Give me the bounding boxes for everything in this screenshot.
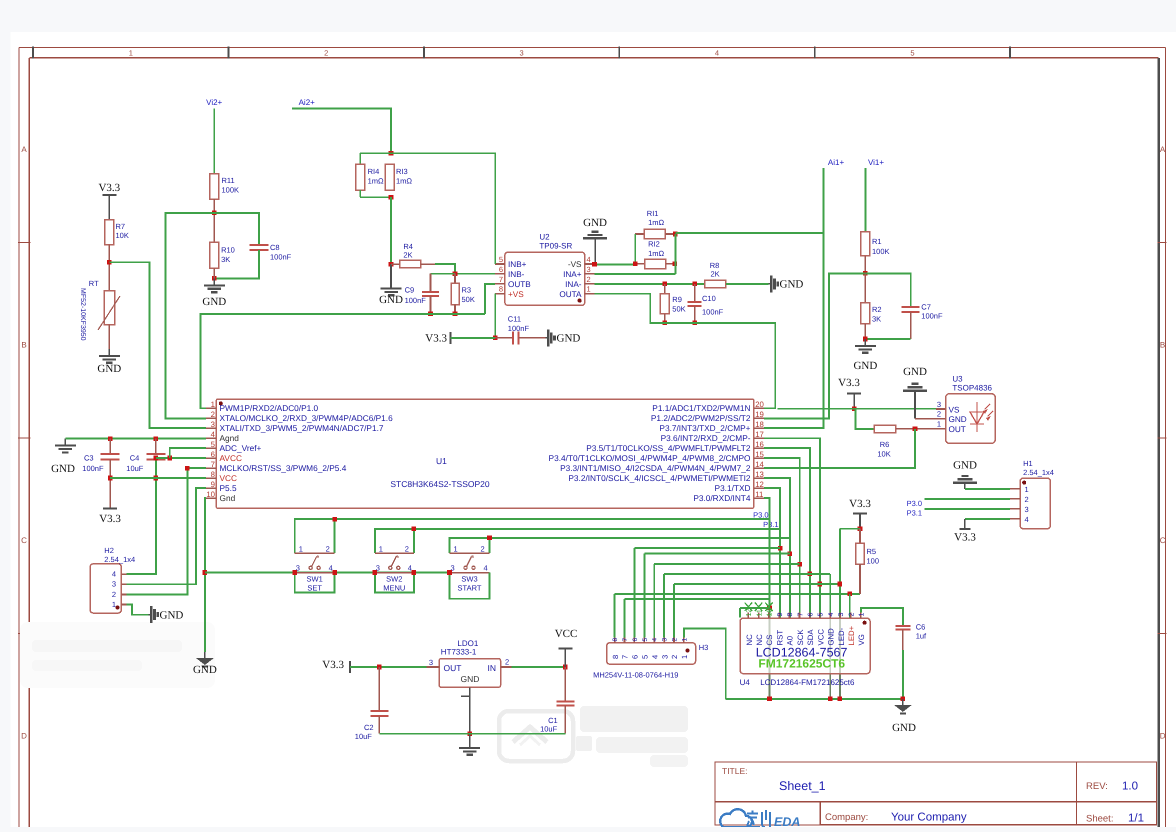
svg-text:R7: R7 (116, 222, 126, 231)
svg-text:5: 5 (499, 255, 503, 264)
power flag V3.3 (R5) (849, 498, 871, 529)
capacitor C2 (355, 667, 389, 741)
svg-text:GND: GND (202, 296, 226, 308)
svg-text:A: A (21, 145, 27, 154)
svg-text:3: 3 (937, 400, 941, 409)
wire branch row VCC-H3p2 (674, 583, 840, 585)
svg-text:C4: C4 (130, 454, 140, 463)
svg-text:U1: U1 (436, 456, 447, 466)
svg-text:1uf: 1uf (916, 632, 927, 641)
node R9 top junction (662, 282, 667, 287)
svg-text:100nF: 100nF (82, 464, 104, 473)
svg-text:19: 19 (755, 410, 764, 419)
node LED+ junction (847, 592, 852, 597)
power flag V3.3 (R7) (98, 182, 120, 220)
svg-text:5: 5 (818, 613, 825, 617)
wire branch row RST-H3p6 (634, 547, 780, 549)
resistor RI2 (635, 240, 675, 269)
svg-text:14: 14 (755, 460, 764, 469)
svg-text:MH254V-11-08-0764-H19: MH254V-11-08-0764-H19 (593, 671, 678, 680)
ground LCD rail (892, 699, 916, 734)
svg-text:V3.3: V3.3 (99, 513, 121, 525)
connector H3 (593, 637, 708, 679)
node R1/R2 junction (863, 271, 868, 276)
svg-text:P1.2/ADC2/PWM2P/SS/T2: P1.2/ADC2/PWM2P/SS/T2 (651, 413, 751, 423)
node +VS junction (493, 336, 498, 341)
svg-text:17: 17 (755, 430, 764, 439)
svg-text:VCC: VCC (816, 629, 825, 646)
node C3 top junction (108, 436, 113, 441)
wire R7-RT (108, 245, 110, 291)
svg-text:2K: 2K (403, 251, 412, 260)
svg-text:B: B (1160, 341, 1165, 350)
node R5 top junction (858, 526, 863, 531)
svg-text:PWM1P/RXD2/ADC0/P1.0: PWM1P/RXD2/ADC0/P1.0 (220, 403, 319, 413)
svg-text:2: 2 (937, 410, 941, 419)
svg-text:2.54_1x4: 2.54_1x4 (1023, 468, 1054, 477)
wire H3 pin3 riser (663, 574, 665, 637)
svg-text:2: 2 (587, 275, 591, 284)
wire INB+ riser (391, 153, 495, 264)
title block (715, 762, 1157, 825)
svg-text:Company:: Company: (825, 812, 868, 823)
svg-text:8: 8 (612, 638, 619, 642)
svg-text:V3.3: V3.3 (425, 333, 447, 345)
svg-text:Gnd: Gnd (220, 493, 236, 503)
wire RI top bar (360, 153, 391, 164)
node AVCC/C4 junction (154, 456, 159, 461)
node LDO GND junction (467, 731, 472, 736)
svg-text:4: 4 (484, 564, 488, 573)
svg-text:XTALI/TXD_3/PWM5_2/PWM4N/ADC7/: XTALI/TXD_3/PWM5_2/PWM4N/ADC7/P1.7 (220, 423, 384, 433)
node branch RST (778, 546, 783, 551)
svg-text:100nF: 100nF (270, 253, 292, 262)
node SW3 rail junction (487, 536, 492, 541)
wire H3 pin5 riser (643, 554, 645, 638)
svg-text:Agnd: Agnd (220, 433, 240, 443)
capacitor C7 (902, 303, 943, 340)
wire divider to C7 (865, 273, 910, 307)
resistor RI3 (385, 164, 412, 190)
svg-text:100K: 100K (222, 186, 240, 195)
wire branch row SDA-H3p3 (664, 573, 830, 575)
svg-text:FM1721625CT6: FM1721625CT6 (758, 656, 845, 670)
svg-text:RI1: RI1 (647, 209, 659, 218)
resistor R10 (210, 242, 235, 268)
svg-text:3: 3 (520, 48, 524, 57)
node RI1 right junction (673, 232, 678, 237)
svg-text:U2: U2 (539, 233, 550, 242)
wire -VS to RI2 (595, 263, 636, 265)
node C10 top junction (692, 282, 697, 287)
op-amp U2 (495, 233, 594, 306)
svg-text:20: 20 (755, 400, 764, 409)
wire pin12 column (764, 488, 780, 618)
power flag V3.3 (U3) (838, 377, 861, 409)
svg-text:3K: 3K (221, 255, 230, 264)
svg-text:4: 4 (828, 613, 835, 617)
node R7/RT junction (107, 260, 112, 265)
wire V3.3/LED- column (839, 529, 841, 699)
node branch A0 (788, 551, 793, 556)
svg-text:2: 2 (481, 545, 485, 554)
svg-text:P3.0: P3.0 (907, 499, 922, 508)
svg-text:5: 5 (211, 440, 216, 449)
svg-text:STC8H3K64S2-TSSOP20: STC8H3K64S2-TSSOP20 (390, 479, 489, 489)
svg-text:P3.3/INT1/MISO_4/I2CSDA_4/PWM4: P3.3/INT1/MISO_4/I2CSDA_4/PWM4N_4/PWM7_2 (560, 463, 751, 473)
svg-text:INB+: INB+ (508, 260, 527, 269)
svg-text:1: 1 (454, 545, 458, 554)
svg-text:1.0: 1.0 (1122, 781, 1138, 793)
switch SW3 (450, 538, 790, 599)
ground R10 (202, 278, 226, 308)
svg-text:6: 6 (632, 638, 639, 642)
wire H1 pin2 (924, 498, 1009, 500)
svg-text:3: 3 (112, 580, 116, 589)
ground below R4 junction (379, 264, 403, 306)
wire C4 bottom to H2 pin4 (126, 459, 156, 574)
ground H1 (953, 460, 977, 489)
svg-text:OUT: OUT (949, 425, 966, 434)
frame column ticks and numbers (33, 47, 1010, 59)
svg-text:P3.2/INT0/SCLK_4/ICSCL_4/PWMET: P3.2/INT0/SCLK_4/ICSCL_4/PWMETI/PWMETI2 (568, 473, 751, 483)
svg-text:VS: VS (949, 406, 960, 415)
svg-text:6: 6 (631, 655, 640, 659)
resistor RI1 (635, 209, 675, 239)
capacitor C1 (540, 667, 574, 734)
svg-text:3: 3 (838, 613, 845, 617)
svg-text:GND: GND (583, 217, 607, 229)
svg-text:P3.0: P3.0 (753, 511, 768, 520)
svg-text:R11: R11 (222, 176, 235, 185)
capacitor C11 (495, 315, 545, 345)
wire RI to R4 (390, 197, 392, 264)
svg-text:IN: IN (488, 663, 497, 673)
svg-text:16: 16 (755, 440, 764, 449)
svg-text:3: 3 (660, 655, 669, 659)
node R4/R3 junction (453, 271, 458, 276)
svg-text:REV:: REV: (1086, 781, 1108, 792)
svg-text:VG: VG (857, 634, 866, 645)
node rail CS (767, 697, 772, 702)
svg-text:3: 3 (429, 658, 433, 667)
svg-text:1: 1 (299, 545, 303, 554)
svg-text:5: 5 (642, 638, 649, 642)
wire LED+ drop (849, 594, 851, 618)
svg-text:A: A (1160, 145, 1166, 154)
node R11/R10 junction (212, 211, 217, 216)
svg-text:MCLKO/RST/SS_3/PWM6_2/P5.4: MCLKO/RST/SS_3/PWM6_2/P5.4 (220, 463, 347, 473)
wire pin9 to H2 pin3 (126, 488, 206, 584)
svg-text:R10: R10 (221, 246, 235, 255)
node Gnd/switch-rail junction (203, 570, 208, 575)
resistor R2 (861, 273, 882, 324)
resistor R1 (861, 232, 890, 274)
svg-text:1: 1 (112, 600, 116, 609)
wire H3 pin8 riser (614, 594, 616, 638)
svg-text:GND: GND (51, 463, 75, 475)
svg-text:SDA: SDA (806, 629, 815, 646)
svg-text:CS: CS (765, 635, 774, 646)
svg-text:2K: 2K (711, 270, 720, 279)
wire Ai1+ rail (675, 232, 823, 234)
node branch VCC-LCD (818, 582, 823, 587)
svg-text:4: 4 (587, 255, 591, 264)
svg-text:R3: R3 (462, 286, 472, 295)
wire RI bottom bar (360, 190, 391, 197)
capacitor C8 (250, 243, 292, 262)
node C2 junction (377, 665, 382, 670)
svg-text:2: 2 (405, 545, 409, 554)
svg-text:Ai2+: Ai2+ (299, 98, 316, 107)
svg-text:P3.1: P3.1 (763, 520, 778, 529)
wire R2 bottom (865, 324, 910, 339)
wire V3.3 rail to U3 (778, 408, 945, 410)
svg-text:P3.6/INT2/RXD_2/CMP-: P3.6/INT2/RXD_2/CMP- (661, 433, 751, 443)
svg-text:11: 11 (755, 490, 763, 499)
net label P3.0 (H1) (907, 499, 922, 508)
node R4 left junction (389, 262, 394, 267)
wire C8 bottom (214, 250, 259, 278)
wire +VS riser (494, 294, 496, 338)
wire pin7 to H2 pin2 (126, 468, 206, 594)
svg-text:TSOP4836: TSOP4836 (952, 384, 992, 393)
svg-text:100nF: 100nF (921, 312, 943, 321)
svg-text:8: 8 (787, 613, 794, 617)
wire V3.3 to LDO OUT (350, 666, 426, 668)
thermistor RT (79, 279, 120, 341)
resistor R7 (105, 220, 129, 245)
svg-text:50K: 50K (672, 305, 685, 314)
net label P3.1 (H1) (907, 509, 922, 518)
svg-text:10K: 10K (877, 450, 890, 459)
connector H1 (1010, 459, 1054, 529)
node rail GND (828, 697, 833, 702)
wire OUT to pin14 (764, 429, 915, 468)
svg-text:R9: R9 (672, 295, 682, 304)
svg-text:C3: C3 (84, 454, 94, 463)
svg-text:SET: SET (307, 583, 322, 592)
wire Agnd rail (65, 438, 205, 440)
node branch SCK (797, 562, 802, 567)
svg-text:-VS: -VS (568, 260, 582, 269)
ground U3 top (903, 366, 927, 419)
svg-text:V3.3: V3.3 (838, 377, 860, 389)
capacitor C6 (895, 623, 927, 699)
ground H2 pin1 (148, 606, 183, 623)
svg-text:4: 4 (652, 638, 659, 642)
node RI2 right junction (673, 262, 678, 267)
resistor R8 (705, 261, 769, 288)
svg-text:100nF: 100nF (405, 296, 427, 305)
svg-text:1: 1 (587, 285, 591, 294)
net label P3.0 (U1) (753, 511, 768, 520)
wire pin17 column (764, 438, 820, 617)
svg-text:SW1: SW1 (307, 575, 323, 584)
svg-text:18: 18 (755, 420, 764, 429)
wire Vi1+ to R1 (864, 168, 866, 232)
svg-text:INB-: INB- (508, 270, 525, 279)
wire H2 pin1 to GND (126, 605, 148, 615)
wire OUTB riser (485, 284, 495, 314)
node -VS junction (592, 262, 597, 267)
svg-text:2.54_1x4: 2.54_1x4 (104, 555, 135, 564)
wire H3 pin7 riser (624, 599, 626, 638)
svg-text:6: 6 (499, 265, 503, 274)
ground RT (97, 349, 121, 375)
svg-text:C9: C9 (405, 286, 415, 295)
svg-text:5: 5 (910, 48, 914, 57)
svg-text:GND: GND (827, 628, 836, 646)
svg-text:1: 1 (1025, 485, 1029, 494)
wire H3 pin2 riser (673, 584, 675, 637)
node SW2 rail junction (412, 527, 417, 532)
node RI top junction (389, 151, 394, 156)
svg-text:13: 13 (755, 470, 764, 479)
svg-text:50K: 50K (462, 295, 475, 304)
node SW3 pin3 junction (447, 570, 452, 575)
wire pin10 Gnd down (204, 498, 207, 652)
svg-text:GND: GND (97, 363, 121, 375)
svg-text:2: 2 (211, 410, 215, 419)
node U3 OUT junction (913, 427, 918, 432)
net label Ai2+ (299, 98, 316, 107)
connector H2 (90, 546, 135, 613)
svg-text:10K: 10K (116, 231, 129, 240)
svg-text:LED+: LED+ (847, 625, 856, 645)
resistor R5 (856, 529, 879, 594)
svg-text:GND: GND (853, 360, 877, 372)
svg-text:8: 8 (499, 285, 503, 294)
node RI bottom junction (389, 195, 394, 200)
svg-text:START: START (458, 583, 482, 592)
wire V3.3 to column (840, 528, 860, 530)
wire RI1/RI2 left vertical (634, 234, 636, 264)
svg-text:P3.4/T0/T1CLKO/MOSI_4/PWM4P_4/: P3.4/T0/T1CLKO/MOSI_4/PWM4P_4/PWM8_2/CMP… (549, 453, 751, 463)
svg-text:RI3: RI3 (396, 167, 408, 176)
wire AVCC rail (156, 457, 206, 459)
svg-text:GND: GND (379, 294, 403, 306)
svg-text:C7: C7 (921, 303, 931, 312)
svg-text:Ai1+: Ai1+ (828, 158, 845, 167)
svg-text:OUT: OUT (444, 663, 462, 673)
svg-text:9: 9 (777, 613, 784, 617)
svg-text:1: 1 (211, 400, 215, 409)
wire C9 branch (431, 273, 456, 275)
wire Ai2+ to RI pair (292, 109, 391, 154)
svg-text:2: 2 (672, 638, 679, 642)
svg-text:VCC: VCC (555, 628, 578, 640)
svg-text:OUTA: OUTA (559, 290, 582, 299)
svg-text:1mΩ: 1mΩ (648, 249, 664, 258)
svg-text:15: 15 (755, 450, 764, 459)
svg-text:MF52-10KF3950: MF52-10KF3950 (79, 288, 86, 341)
wire R4 to INB- (435, 264, 495, 274)
node U3 VS junction (852, 406, 857, 411)
node R10 bottom junction (212, 268, 217, 280)
svg-text:P3.5/T1/T0CLKO/SS_4/PWMFLT/PWM: P3.5/T1/T0CLKO/SS_4/PWMFLT/PWMFLT2 (586, 443, 751, 453)
svg-text:7: 7 (211, 460, 215, 469)
wire LCD GND column (829, 574, 831, 699)
wire branch row CS (740, 608, 770, 618)
svg-text:10uF: 10uF (355, 732, 373, 741)
switch SW1 (295, 519, 770, 593)
svg-text:P1.1/ADC1/TXD2/PWM1N: P1.1/ADC1/TXD2/PWM1N (652, 403, 750, 413)
resistor R9 (660, 284, 686, 323)
node C4/VCC junction (154, 476, 159, 481)
svg-text:1: 1 (937, 419, 941, 428)
svg-text:GND: GND (780, 279, 804, 291)
svg-text:GND: GND (557, 333, 581, 345)
svg-text:9: 9 (211, 480, 215, 489)
frame row ticks and letters (18, 145, 1167, 741)
svg-text:GND: GND (193, 664, 217, 676)
svg-text:8: 8 (211, 470, 215, 479)
svg-text:4: 4 (715, 48, 719, 57)
svg-text:4: 4 (1025, 515, 1029, 524)
wire pin15 column (764, 458, 800, 618)
ground pin10 (193, 652, 217, 676)
svg-text:GND: GND (903, 366, 927, 378)
wire H1 pin3 (924, 508, 1009, 510)
svg-text:3K: 3K (872, 315, 881, 324)
node V3.3 column joint (838, 582, 843, 587)
svg-text:3: 3 (211, 420, 215, 429)
svg-text:LED-: LED- (837, 627, 846, 645)
svg-text:2: 2 (1025, 495, 1029, 504)
wire filter rail to pin1 (201, 314, 485, 408)
svg-text:7: 7 (622, 638, 629, 642)
svg-text:V3.3: V3.3 (849, 498, 871, 510)
svg-text:6: 6 (808, 613, 815, 617)
svg-text:1: 1 (129, 48, 133, 57)
wire H3 pin1 to GND rail (684, 628, 726, 699)
wire divider to pin3 (109, 262, 206, 428)
wire pin11 column (764, 498, 770, 699)
svg-text:10: 10 (767, 609, 774, 617)
svg-text:Your Company: Your Company (891, 812, 967, 824)
wire LCD GND rail (726, 698, 903, 700)
svg-text:V3.3: V3.3 (322, 659, 344, 671)
svg-text:RI4: RI4 (368, 167, 380, 176)
svg-text:NC: NC (755, 634, 764, 646)
svg-text:10uF: 10uF (540, 725, 558, 734)
svg-text:2: 2 (670, 655, 679, 659)
node R2 bottom junction (863, 337, 868, 342)
wire H1 pin4 (965, 518, 1010, 520)
wire branch row H3p7 (625, 598, 770, 600)
node branch CS (767, 606, 772, 611)
svg-text:GND: GND (461, 674, 480, 684)
svg-text:C: C (1160, 536, 1166, 545)
svg-text:XTALO/MCLKO_2/RXD_3/PWM4P/ADC6: XTALO/MCLKO_2/RXD_3/PWM4P/ADC6/P1.6 (220, 413, 394, 423)
wire H3 pin4 riser (653, 564, 655, 637)
wire VCC rail (110, 477, 206, 479)
capacitor C3 (82, 439, 119, 509)
svg-text:C11: C11 (508, 315, 521, 324)
svg-text:4: 4 (112, 570, 116, 579)
svg-text:TP09-SR: TP09-SR (539, 242, 572, 251)
node SW2 pin3 junction (373, 570, 378, 575)
svg-text:Vi1+: Vi1+ (868, 158, 884, 167)
wire divider to pin2 (165, 213, 214, 418)
wire branch row SCK-H3p4 (654, 563, 800, 565)
net label P3.1 (U1) (763, 520, 778, 529)
node pin7 junction (185, 466, 190, 471)
MCU U1 (206, 399, 765, 508)
svg-text:U4: U4 (740, 678, 751, 687)
svg-text:3: 3 (662, 638, 669, 642)
